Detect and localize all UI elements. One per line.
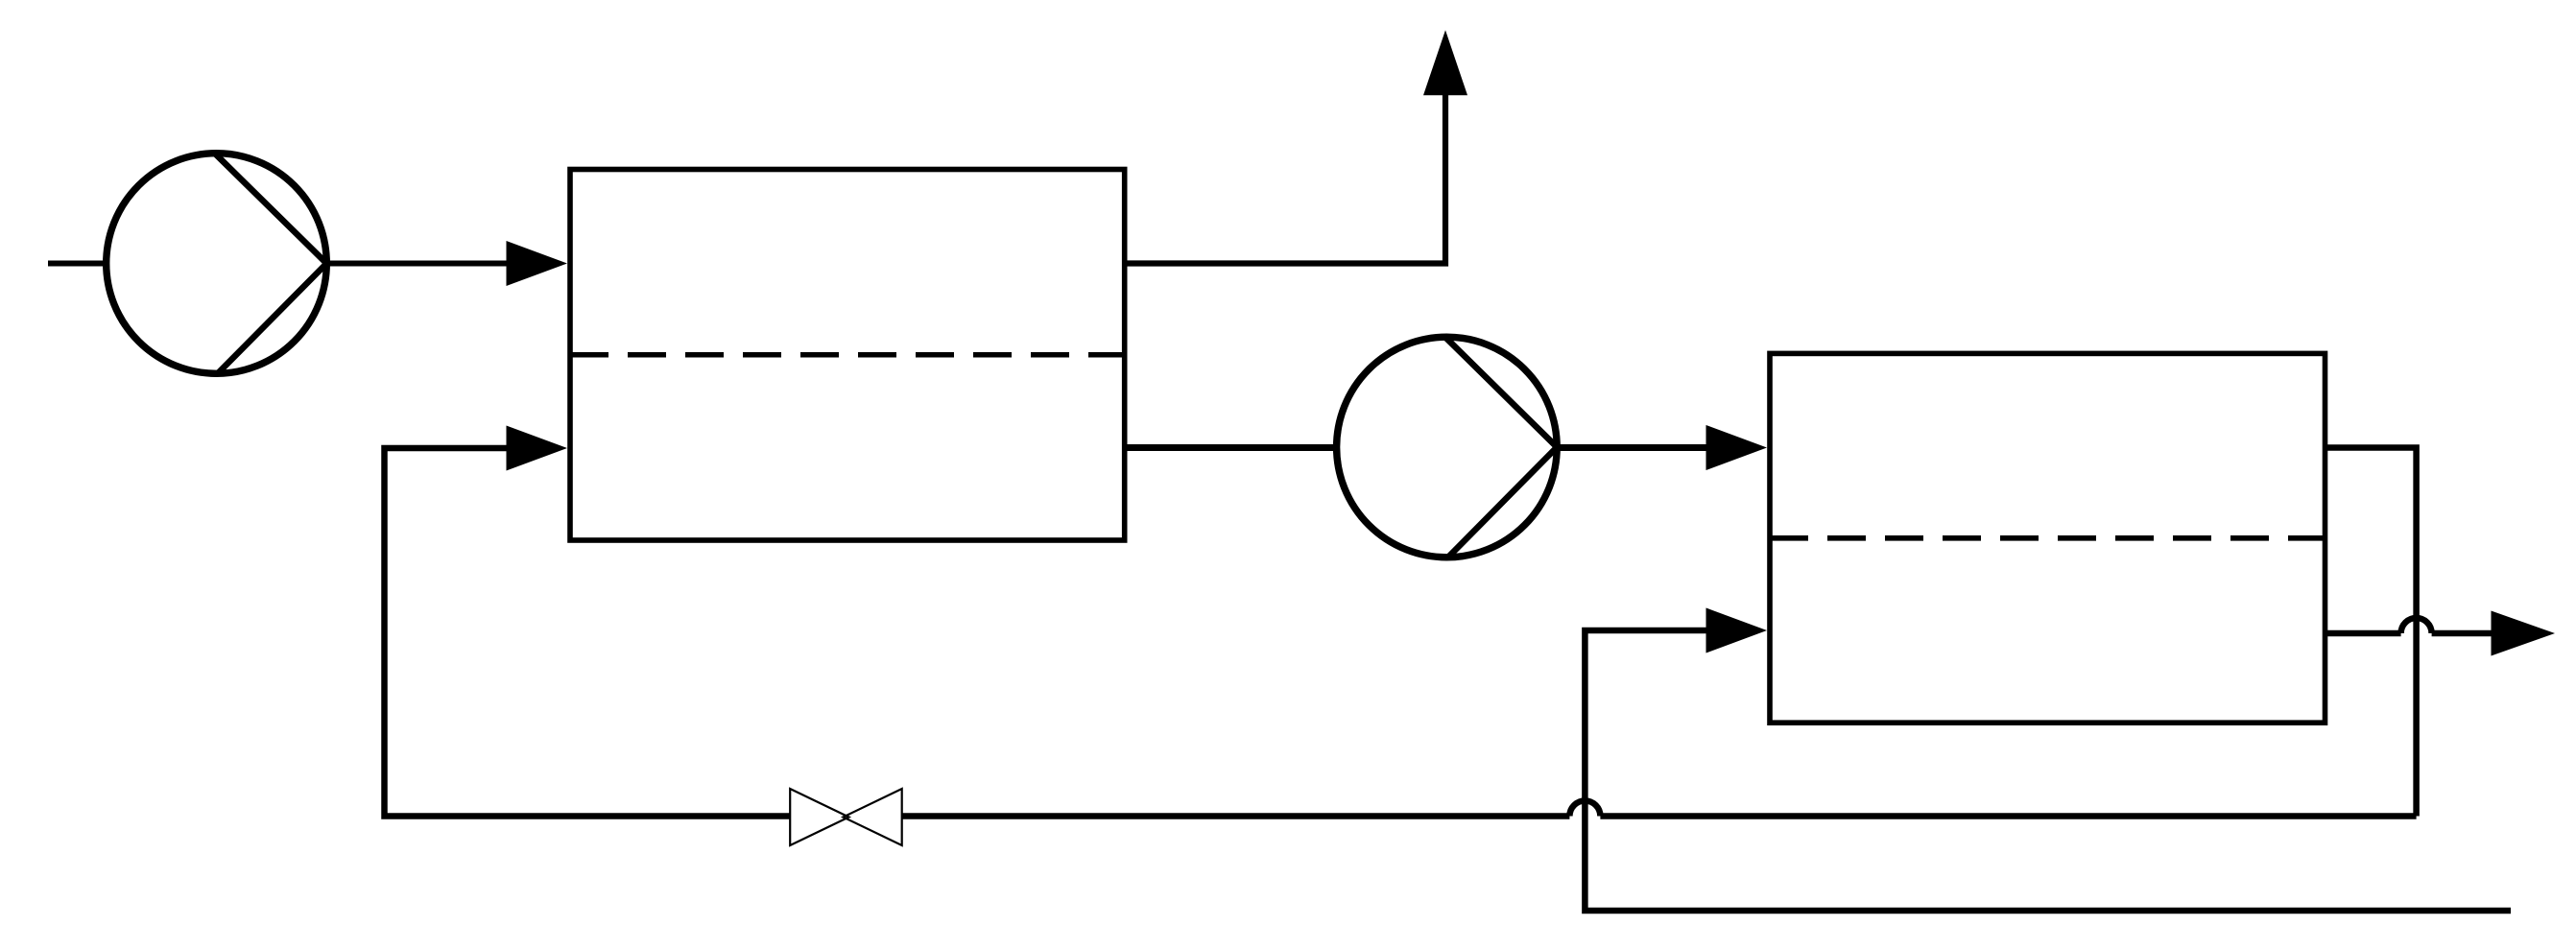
vent arrowhead [1423,30,1467,95]
wire: pump P2 to tank T2 [1555,444,1707,451]
tank T2 [1770,353,2326,723]
second feed wire into tank T2 (from bottom right) [1585,630,2511,911]
tank T1 [570,170,1125,541]
recycle wire: tank T2 top outlet, right then down [2326,448,2417,817]
arrowhead into tank T2 upper inlet [1706,425,1768,470]
valve V1 [790,789,902,845]
crossover hop on product outlet wire [2401,618,2432,633]
arrowhead into tank T2 lower inlet [1706,608,1768,653]
liquid level (dashed) in tank T2 [1770,535,2326,541]
recycle wire: hop to valve [902,813,1570,819]
arrowhead into tank T1 lower inlet [507,426,568,471]
wire: tank T1 outlet to pump P2 [1125,444,1338,451]
recycle wire: valve to left riser and up to tank T1 lower inlet [385,448,791,817]
wire: feed inlet stub [48,261,107,267]
vent wire from tank T1 [1125,95,1445,264]
pump P1 [107,154,327,374]
crossover hop on recycle line [1569,801,1600,817]
product outlet wire: hop to arrow [2432,630,2493,637]
wire: pump P1 to tank T1 [324,261,508,267]
pump P2 [1337,337,1558,558]
product outlet wire from tank T2 [2326,630,2401,637]
recycle wire: lower horizontal run right of hop [1600,813,2416,819]
arrowhead into tank T1 upper inlet [507,241,568,286]
product outlet arrowhead [2492,611,2556,656]
liquid level (dashed) in tank T1 [570,352,1125,358]
